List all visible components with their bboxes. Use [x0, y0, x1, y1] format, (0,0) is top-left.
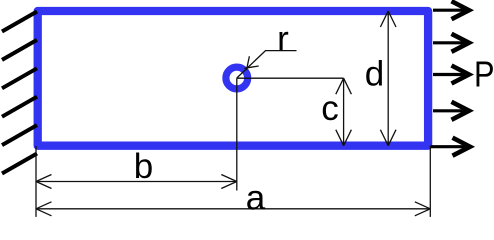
- c dimension line: [336, 78, 352, 146]
- wall hatching line 3: [2, 68, 37, 88]
- centerline from hole to c dimension: [237, 77, 344, 79]
- wall hatching line 6: [2, 154, 37, 174]
- svg-text:P: P: [474, 53, 494, 94]
- svg-text:b: b: [134, 147, 153, 186]
- extension line below bottom-left corner: [35, 146, 37, 217]
- svg-text:d: d: [365, 55, 384, 94]
- wall hatching line 5: [2, 125, 37, 145]
- wall hatching line 4: [2, 97, 37, 117]
- extension line below bottom-right corner: [429, 146, 431, 217]
- svg-text:a: a: [246, 178, 266, 217]
- extension line below hole center: [236, 78, 238, 190]
- d dimension line: [380, 11, 396, 146]
- svg-text:c: c: [321, 89, 339, 128]
- a dimension line: [36, 202, 430, 216]
- svg-text:r: r: [277, 20, 289, 59]
- plate outline (blue rectangle): [38, 11, 428, 146]
- force arrow 5: [431, 138, 471, 156]
- force arrow 1: [433, 1, 469, 19]
- force arrow 2: [433, 34, 469, 52]
- hole (blue circle): [226, 67, 248, 89]
- wall hatching line 2: [2, 40, 37, 60]
- force arrow 3: [433, 66, 469, 84]
- force arrow 4: [433, 102, 469, 120]
- b dimension line: [36, 175, 237, 189]
- wall hatching line 1: [2, 12, 37, 32]
- leader line for r: [237, 51, 297, 78]
